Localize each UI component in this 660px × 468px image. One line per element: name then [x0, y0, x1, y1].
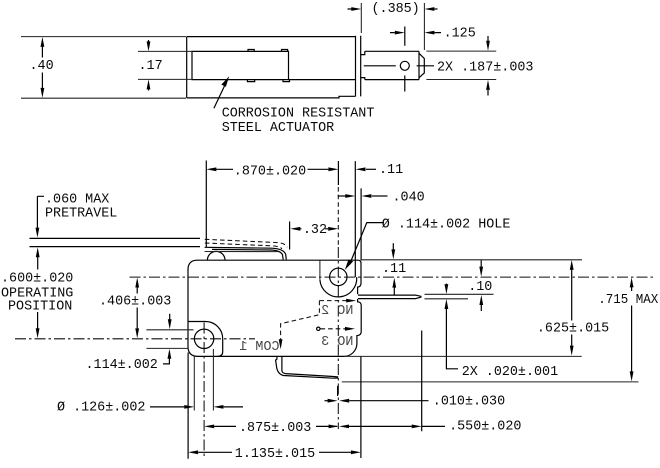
- NC terminal blade: [358, 295, 421, 299]
- switch body outline: [188, 260, 361, 356]
- svg-text:STEEL ACTUATOR: STEEL ACTUATOR: [222, 121, 335, 136]
- dimension .625: [537, 260, 609, 356]
- dimension .040: [338, 190, 425, 205]
- bottom extension line .715: [342, 381, 639, 383]
- dimension (.385): [348, 2, 438, 50]
- dimension .010: [325, 394, 506, 409]
- arrow to hole top edge: [168, 314, 172, 330]
- lever free position dashed: [205, 239, 287, 249]
- dimension .10: [468, 260, 492, 311]
- svg-text:Ø .126±.002: Ø .126±.002: [57, 401, 145, 416]
- dimension .875: [204, 421, 339, 436]
- svg-text:POSITION: POSITION: [8, 300, 72, 315]
- actuator window tabs: [247, 50, 289, 82]
- upper mounting hole: [330, 268, 347, 285]
- dimension .114: [86, 349, 172, 373]
- body top edge extension right: [362, 259, 583, 261]
- corrosion resistant steel actuator window: [192, 51, 289, 79]
- svg-text:.114±.002: .114±.002: [86, 358, 158, 373]
- svg-text:PRETRAVEL: PRETRAVEL: [45, 207, 117, 222]
- svg-text:(.385): (.385): [372, 2, 420, 17]
- upper hole vertical centerline: [337, 161, 339, 429]
- dimension diameter .126: [57, 401, 243, 416]
- dimension 2X .020: [445, 284, 559, 380]
- COM terminal bent blade: [276, 357, 338, 379]
- plunger neck: [361, 51, 365, 79]
- top view end cap: [356, 36, 361, 97]
- svg-text:1.135±.015: 1.135±.015: [235, 447, 315, 462]
- dimension .715 MAX: [598, 277, 658, 381]
- lower mounting hole: [194, 329, 213, 348]
- svg-text:.010±.030: .010±.030: [433, 394, 505, 409]
- leader corrosion resistant steel actuator: [214, 76, 374, 136]
- dimension .406: [99, 278, 171, 339]
- svg-text:.40: .40: [30, 59, 54, 74]
- dimension .32: [290, 222, 339, 250]
- dimension 1.135: [188, 447, 361, 462]
- leader hole label: [345, 218, 511, 270]
- svg-text:.11: .11: [379, 163, 403, 178]
- pretravel dimension .060 MAX: [36, 193, 118, 238]
- dimension .11 top: [356, 163, 404, 178]
- dimension 2X .187: [426, 36, 533, 96]
- extension verticals bottom: [188, 331, 422, 459]
- blade extension lines: [425, 294, 494, 299]
- svg-text:COM 1: COM 1: [239, 340, 279, 355]
- plunger centerline vertical: [404, 27, 406, 92]
- dimension .17: [138, 40, 192, 91]
- operating position dimension .600: [1, 247, 73, 338]
- svg-text:Ø .114±.002 HOLE: Ø .114±.002 HOLE: [382, 218, 511, 233]
- lever operating position: [205, 247, 287, 259]
- blade tip extension: [337, 386, 339, 396]
- svg-text:.715 MAX: .715 MAX: [598, 293, 658, 308]
- svg-text:NO 3: NO 3: [321, 335, 353, 350]
- svg-text:.125: .125: [444, 27, 476, 42]
- lever free position extension lines: [30, 238, 201, 246]
- hole diameter extension lines: [194, 349, 213, 411]
- dashed leader NO: [317, 327, 355, 331]
- centerline through lower hole: [15, 338, 255, 340]
- lower hole vertical centerline: [203, 323, 205, 460]
- plunger body: [365, 51, 419, 79]
- svg-text:.550±.020: .550±.020: [449, 420, 521, 435]
- dimension .40: [21, 37, 186, 99]
- plunger hole: [400, 61, 409, 70]
- svg-text:.870±.020: .870±.020: [234, 164, 306, 179]
- lower hole edge extension lines: [146, 330, 193, 349]
- svg-text:.875±.003: .875±.003: [239, 421, 311, 436]
- plunger chamfered tip: [419, 53, 424, 77]
- svg-text:.625±.015: .625±.015: [537, 321, 609, 336]
- svg-text:2X .020±.001: 2X .020±.001: [462, 365, 558, 380]
- svg-text:.11: .11: [382, 262, 406, 277]
- svg-text:.17: .17: [139, 59, 163, 74]
- dimension .550: [339, 420, 521, 435]
- svg-text:.060 MAX: .060 MAX: [45, 193, 109, 208]
- upper mounting hole boss: [320, 161, 361, 297]
- svg-text:.32: .32: [303, 223, 327, 238]
- svg-text:.10: .10: [468, 280, 492, 295]
- svg-text:2X .187±.003: 2X .187±.003: [437, 61, 533, 76]
- main centerline through upper hole: [130, 276, 657, 278]
- plunger centerline horizontal: [364, 65, 434, 67]
- svg-text:NC 2: NC 2: [321, 304, 353, 319]
- svg-text:CORROSION RESISTANT: CORROSION RESISTANT: [222, 107, 375, 122]
- svg-text:.040: .040: [393, 190, 425, 205]
- body bottom edge extension: [344, 355, 582, 357]
- dimension .125: [390, 27, 476, 42]
- lever hinge bump: [207, 251, 225, 260]
- inner body line to cap: [289, 79, 356, 81]
- top view body outline: [187, 37, 356, 98]
- dashed leader NC: [279, 299, 357, 350]
- dimension .11 right: [382, 243, 406, 295]
- lower mounting hole boss: [188, 322, 222, 357]
- svg-text:.406±.003: .406±.003: [99, 294, 171, 309]
- svg-text:.600±.020: .600±.020: [1, 271, 73, 286]
- dimension .870: [206, 161, 338, 248]
